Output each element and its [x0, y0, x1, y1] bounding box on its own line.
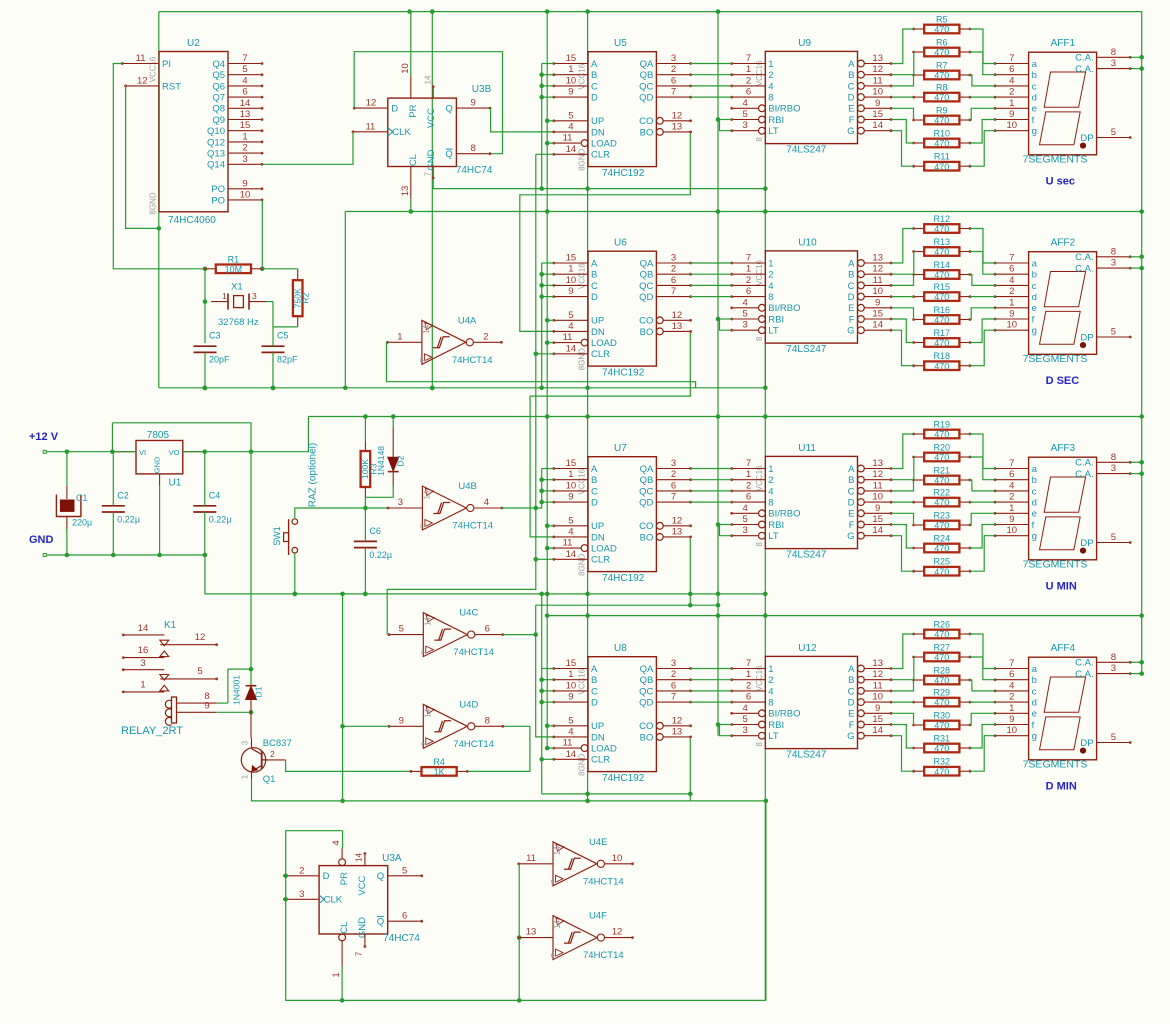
svg-text:g: g: [1032, 731, 1037, 742]
U9 pin 15 outF: [858, 116, 865, 123]
wire relay pin9: [217, 711, 251, 713]
svg-text:Q: Q: [377, 871, 384, 882]
svg-text:6: 6: [402, 911, 407, 922]
U10 pin 3 LT: [759, 327, 766, 334]
U9 pin 6 in8: [732, 96, 766, 98]
svg-text:R7: R7: [936, 61, 948, 71]
IC U8 74HC192: [578, 643, 657, 784]
svg-text:8: 8: [768, 498, 773, 509]
wires AFF1 C.A. to rail: [1130, 56, 1142, 58]
AFF3 pin 6 seg b: [995, 479, 1029, 481]
svg-text:1: 1: [568, 264, 573, 275]
AFF2 pin 1 seg e: [995, 307, 1029, 309]
svg-text:4: 4: [768, 281, 773, 292]
svg-text:2: 2: [1009, 692, 1014, 703]
resistor R3: [360, 441, 378, 498]
svg-text:C: C: [848, 281, 855, 292]
IC U2 74HC4060: [121, 38, 264, 226]
svg-text:15: 15: [240, 120, 251, 131]
svg-text:470: 470: [934, 721, 949, 731]
svg-text:AFF1: AFF1: [1051, 38, 1076, 49]
svg-text:5: 5: [568, 515, 573, 526]
svg-text:8: 8: [755, 336, 764, 341]
wires U12 outputs to resistors: [891, 634, 914, 669]
svg-text:74HC74: 74HC74: [383, 933, 420, 944]
svg-text:2: 2: [746, 75, 751, 86]
svg-text:0.22µ: 0.22µ: [209, 514, 232, 524]
AFF2 pin 4 seg c: [995, 284, 1029, 286]
wire U3B Q to U5 DN: [491, 108, 554, 132]
svg-text:5: 5: [1111, 327, 1116, 338]
U11 pin 6 in8: [732, 501, 766, 503]
svg-text:d: d: [1032, 498, 1037, 509]
svg-text:VCC: VCC: [426, 108, 437, 128]
AFF4 pin 5 DP: [1097, 742, 1131, 744]
svg-text:U sec: U sec: [1046, 176, 1075, 188]
wire SW1 top to U4B input: [295, 508, 388, 519]
svg-text:C: C: [848, 81, 855, 92]
wires U7 outputs to U11: [690, 468, 731, 470]
svg-text:470: 470: [934, 162, 949, 172]
svg-text:QC: QC: [639, 281, 653, 292]
U12 pin 9 outE: [858, 710, 865, 717]
svg-text:9: 9: [568, 692, 573, 703]
svg-text:11: 11: [136, 53, 146, 64]
svg-text:470: 470: [934, 430, 949, 440]
svg-text:g: g: [1032, 326, 1037, 337]
wire bottom rail below row4: [542, 794, 691, 801]
junction dots rails: [407, 9, 412, 14]
svg-text:13: 13: [526, 927, 537, 938]
svg-text:15: 15: [872, 309, 883, 320]
U12 pin 14 outG: [858, 732, 865, 739]
svg-text:7: 7: [671, 692, 676, 703]
svg-text:5: 5: [568, 110, 573, 121]
U9 pin 9 outE: [858, 105, 865, 112]
wire LT feed row 3: [720, 725, 732, 736]
U6 pin 7 QD: [656, 296, 690, 298]
svg-text:C: C: [591, 81, 598, 92]
svg-text:0.22µ: 0.22µ: [369, 550, 392, 560]
svg-text:UP: UP: [591, 116, 604, 127]
wire x342 column: [342, 594, 344, 801]
resistor R22: [912, 488, 971, 508]
svg-text:9: 9: [1009, 514, 1014, 525]
svg-text:15: 15: [566, 658, 577, 669]
svg-text:7: 7: [746, 458, 751, 469]
svg-text:GND: GND: [29, 534, 54, 546]
svg-text:2: 2: [768, 475, 773, 486]
svg-text:UP: UP: [591, 316, 604, 327]
svg-text:a: a: [1032, 258, 1038, 269]
svg-text:f: f: [1032, 314, 1035, 325]
wire U8 BO drop: [689, 737, 691, 794]
svg-text:16: 16: [138, 645, 149, 656]
svg-text:C.A.: C.A.: [1075, 469, 1093, 480]
svg-text:X1: X1: [231, 282, 243, 293]
resistor R14: [912, 260, 971, 280]
svg-text:BO: BO: [640, 127, 654, 138]
svg-text:U4A: U4A: [458, 315, 477, 326]
svg-text:5: 5: [568, 715, 573, 726]
wire RAZ column x=536: [387, 154, 536, 634]
svg-text:470: 470: [934, 361, 949, 371]
svg-text:470: 470: [934, 71, 949, 81]
svg-text:0.22µ: 0.22µ: [117, 514, 140, 524]
AFF3 pin 4 seg c: [995, 490, 1029, 492]
AFF2 pin 7 seg a: [995, 262, 1029, 264]
svg-text:U9: U9: [798, 38, 811, 49]
svg-text:11: 11: [563, 538, 573, 549]
svg-text:U7: U7: [614, 443, 627, 454]
wire D1 column: [250, 452, 252, 685]
svg-text:6: 6: [1009, 469, 1014, 480]
svg-text:7: 7: [671, 286, 676, 297]
svg-text:14: 14: [553, 846, 562, 855]
svg-text:10: 10: [566, 480, 577, 491]
svg-text:3: 3: [671, 53, 676, 64]
svg-text:7SEGMENTS: 7SEGMENTS: [1023, 154, 1088, 166]
svg-text:6: 6: [1009, 264, 1014, 275]
AFF4 pin 1 seg e: [995, 712, 1029, 714]
wire U3B PR up to rail: [410, 12, 411, 77]
svg-text:12: 12: [872, 669, 883, 680]
svg-text:VCC16: VCC16: [149, 56, 158, 82]
U7 pin 10 C: [554, 490, 588, 492]
svg-text:1: 1: [331, 972, 342, 977]
U5 pin 4 DN: [554, 131, 588, 133]
svg-text:LOAD: LOAD: [591, 139, 617, 150]
svg-text:5: 5: [197, 666, 202, 677]
svg-text:8: 8: [768, 698, 773, 709]
svg-text:12: 12: [872, 264, 883, 275]
svg-text:D: D: [591, 498, 598, 509]
svg-text:RAZ (optionel): RAZ (optionel): [308, 443, 319, 507]
svg-text:R4: R4: [433, 757, 445, 767]
svg-text:470: 470: [934, 116, 949, 126]
U8 pin 5 UP: [554, 725, 588, 727]
svg-text:8GND: 8GND: [149, 192, 158, 214]
U8 pin 9 D: [554, 701, 588, 703]
svg-text:Q5: Q5: [212, 70, 225, 81]
AFF3 pin 8 C.A.: [1097, 461, 1131, 463]
svg-text:6: 6: [671, 275, 676, 286]
svg-text:3: 3: [398, 497, 403, 508]
svg-text:5: 5: [742, 309, 747, 320]
svg-text:Q: Q: [445, 104, 452, 115]
wire RBI feed row 2: [718, 524, 732, 526]
U12 pin 3 LT: [759, 732, 766, 739]
svg-text:RBI: RBI: [768, 115, 784, 126]
wires left feeds U7: [542, 468, 554, 470]
svg-text:9: 9: [471, 98, 476, 109]
U10 pin 10 outD: [858, 293, 865, 300]
U3B pin 10 PR: [410, 77, 412, 99]
svg-text:D: D: [591, 292, 598, 303]
svg-text:7: 7: [424, 171, 433, 176]
diode D1 1N4001: [232, 675, 264, 738]
svg-text:b: b: [1032, 270, 1037, 281]
svg-text:1: 1: [397, 331, 402, 342]
svg-text:7: 7: [746, 658, 751, 669]
svg-text:Q8: Q8: [212, 104, 225, 115]
svg-text:c: c: [1032, 281, 1037, 292]
wire crystal pin3 to R2 bottom: [273, 302, 298, 327]
U7 pin 12 CO: [656, 522, 663, 529]
svg-text:10: 10: [1007, 120, 1018, 131]
svg-text:11: 11: [563, 332, 573, 343]
svg-text:1: 1: [568, 669, 573, 680]
IC U7 74HC192: [578, 443, 657, 584]
svg-text:7: 7: [1009, 658, 1014, 669]
svg-text:8: 8: [768, 93, 773, 104]
wire C4 connections: [204, 452, 206, 506]
U3B pin 14 VCC stub: [432, 87, 434, 99]
svg-text:PR: PR: [408, 104, 419, 117]
resistor R24: [912, 534, 971, 554]
U11 pin 2 in4: [732, 490, 766, 492]
svg-text:7: 7: [550, 879, 559, 884]
svg-text:14: 14: [424, 75, 433, 84]
wire column x=541 presets row2: [541, 263, 543, 388]
wire GND rail power: [43, 554, 46, 557]
svg-text:2: 2: [768, 270, 773, 281]
svg-text:11: 11: [873, 480, 883, 491]
AFF1 pin 8 C.A.: [1097, 56, 1131, 58]
IC U10 74LS247: [755, 238, 858, 356]
U6 pin 15 A: [554, 262, 588, 264]
resistor R26: [912, 620, 971, 640]
svg-text:A: A: [591, 664, 598, 675]
wire C5 gnd: [272, 352, 274, 388]
svg-text:BI/RBO: BI/RBO: [768, 303, 800, 314]
resistor R8: [912, 83, 971, 103]
svg-text:3: 3: [1111, 258, 1116, 269]
U6 pin 11 LOAD: [581, 339, 588, 346]
AFF4 pin 6 seg b: [995, 679, 1029, 681]
svg-text:470: 470: [934, 544, 949, 554]
svg-text:G: G: [847, 731, 854, 742]
svg-text:7: 7: [671, 492, 676, 503]
svg-text:BO: BO: [640, 327, 654, 338]
svg-text:9: 9: [1009, 109, 1014, 120]
svg-text:C6: C6: [369, 526, 381, 536]
resistor R30: [912, 711, 971, 731]
wire emitter GND rail: [251, 801, 766, 1001]
U11 pin 3 LT: [759, 532, 766, 539]
svg-text:R1: R1: [228, 254, 240, 264]
svg-text:7: 7: [242, 53, 247, 64]
svg-text:470: 470: [934, 476, 949, 486]
svg-text:QD: QD: [639, 93, 653, 104]
display AFF3 7SEGMENTS: [994, 443, 1132, 571]
svg-text:14: 14: [240, 98, 251, 109]
svg-text:f: f: [1032, 520, 1035, 531]
U5 pin 11 LOAD: [581, 140, 588, 147]
resistor R18: [912, 351, 971, 371]
svg-text:12: 12: [672, 310, 683, 321]
wire U3B gnd pin line: [433, 179, 765, 189]
wire LT feed row 2: [720, 525, 732, 536]
U6 pin 14 CLR: [554, 353, 588, 355]
svg-text:11: 11: [563, 133, 573, 144]
svg-text:C: C: [591, 281, 598, 292]
svg-text:R25: R25: [934, 557, 951, 567]
svg-text:11: 11: [365, 121, 375, 132]
U10 pin 13 outA: [858, 260, 865, 267]
svg-text:CO: CO: [639, 721, 653, 732]
U3B pin 9 Q: [456, 107, 490, 109]
svg-text:R30: R30: [934, 711, 951, 721]
U11 pin 1 in2: [732, 479, 766, 481]
svg-text:e: e: [1032, 509, 1037, 520]
wire RBI feed row 1: [718, 318, 732, 320]
wire R3 D2 join: [365, 484, 393, 497]
AFF1 pin 3 C.A.: [1097, 68, 1131, 70]
svg-text:14: 14: [566, 749, 577, 760]
svg-text:2: 2: [242, 143, 247, 154]
svg-text:R23: R23: [934, 511, 951, 521]
U7 pin 6 QC: [656, 490, 690, 492]
svg-text:R21: R21: [934, 466, 951, 476]
svg-text:BI/RBO: BI/RBO: [768, 104, 800, 115]
AFF1 pin 9 seg f: [995, 119, 1029, 121]
svg-text:AFF4: AFF4: [1051, 643, 1076, 654]
svg-text:K1: K1: [164, 620, 177, 631]
resistor R17: [912, 328, 971, 348]
wire column x=587 GND net: [587, 12, 589, 801]
svg-text:CL: CL: [408, 154, 419, 166]
svg-text:470: 470: [934, 338, 949, 348]
AFF2 pin 5 DP: [1097, 336, 1131, 338]
flip-flop U3B 74HC74: [388, 98, 457, 171]
U6 pin 13 BO: [656, 328, 663, 335]
svg-text:AFF2: AFF2: [1051, 238, 1076, 249]
svg-text:14: 14: [872, 320, 883, 331]
svg-text:7: 7: [419, 523, 428, 528]
wire cascade row2-3: [530, 331, 690, 537]
wires AFF4 C.A. to rail: [1130, 661, 1142, 663]
AFF4 pin 4 seg c: [995, 690, 1029, 692]
AFF4 pin 8 C.A.: [1097, 661, 1131, 663]
svg-text:74LS247: 74LS247: [786, 145, 826, 156]
svg-text:C.A.: C.A.: [1075, 64, 1093, 75]
AFF4 pin 2 seg d: [995, 701, 1029, 703]
resistor R15: [912, 282, 971, 302]
svg-text:4: 4: [331, 840, 342, 845]
svg-text:10: 10: [612, 853, 623, 864]
resistor R6: [912, 38, 971, 58]
svg-text:10: 10: [872, 492, 883, 503]
svg-text:PR: PR: [339, 872, 350, 885]
U7 pin 13 BO: [656, 534, 663, 541]
svg-text:QB: QB: [640, 70, 654, 81]
svg-text:11: 11: [873, 75, 883, 86]
svg-text:14: 14: [872, 525, 883, 536]
svg-text:b: b: [1032, 70, 1037, 81]
svg-text:74HC192: 74HC192: [602, 573, 645, 584]
U7 pin 7 QD: [656, 501, 690, 503]
svg-text:B: B: [591, 475, 597, 486]
svg-text:AFF3: AFF3: [1051, 443, 1076, 454]
U7 pin 11 LOAD: [581, 545, 588, 552]
svg-text:2: 2: [746, 275, 751, 286]
wires U9 outputs to resistors: [891, 29, 914, 64]
svg-text:R11: R11: [934, 152, 950, 162]
svg-text:Q9: Q9: [212, 115, 225, 126]
svg-text:4: 4: [1009, 275, 1014, 286]
U6 pin 9 D: [554, 296, 588, 298]
svg-text:a: a: [1032, 59, 1038, 70]
svg-text:7: 7: [420, 650, 429, 655]
display AFF4 7SEGMENTS: [994, 643, 1132, 771]
svg-text:VCC: VCC: [357, 875, 368, 895]
svg-text:F: F: [849, 520, 855, 531]
U11 pin 4 BI/RBO: [759, 510, 766, 517]
U9 pin 14 outG: [858, 127, 865, 134]
svg-text:E: E: [848, 509, 854, 520]
svg-text:470: 470: [934, 25, 949, 35]
wire Q14 to CLK: [262, 132, 353, 165]
crystal X1 32768Hz: [211, 282, 266, 329]
svg-text:3: 3: [241, 740, 250, 745]
resistor R7: [912, 61, 971, 81]
wire column x=541 presets row3: [536, 469, 542, 509]
svg-text:14: 14: [138, 623, 149, 634]
svg-text:9: 9: [875, 98, 880, 109]
svg-text:b: b: [1032, 475, 1037, 486]
resistor R2: [293, 270, 311, 327]
svg-text:74LS247: 74LS247: [786, 550, 826, 561]
svg-text:5: 5: [242, 64, 247, 75]
U5 pin 7 QD: [656, 96, 690, 98]
svg-text:470: 470: [934, 315, 949, 325]
U9 pin 12 outB: [858, 71, 865, 78]
inverter U4A 74HCT14: [386, 315, 503, 366]
AFF4 pin 9 seg f: [995, 724, 1029, 726]
svg-text:10: 10: [566, 275, 577, 286]
svg-text:12: 12: [872, 64, 883, 75]
svg-text:C.A.: C.A.: [1075, 669, 1093, 680]
U9 pin 10 outD: [858, 94, 865, 101]
wire column x=765 GND decoders seg3: [764, 549, 766, 657]
svg-text:6: 6: [671, 680, 676, 691]
wires resistors to AFF4 pins: [970, 634, 995, 669]
wire CLR feed row 2: [536, 558, 554, 560]
svg-text:4: 4: [768, 686, 773, 697]
inverter U4F 74HCT14: [517, 911, 634, 962]
svg-text:R15: R15: [934, 282, 951, 292]
svg-text:7: 7: [1009, 253, 1014, 264]
U5 pin 10 C: [554, 85, 588, 87]
svg-text:C.A.: C.A.: [1075, 458, 1093, 469]
wire CLR feed row 3: [542, 758, 554, 760]
svg-text:3: 3: [1111, 58, 1116, 69]
svg-text:11: 11: [873, 680, 883, 691]
svg-text:2: 2: [1009, 286, 1014, 297]
AFF2 pin 8 C.A.: [1097, 256, 1131, 258]
wire column x=541 presets row1: [541, 64, 543, 189]
svg-text:11: 11: [563, 738, 573, 749]
U8 pin 7 QD: [656, 701, 690, 703]
AFF2 pin 2 seg d: [995, 296, 1029, 298]
svg-text:12: 12: [672, 515, 683, 526]
U9 pin 5 RBI: [759, 116, 766, 123]
svg-text:A: A: [591, 59, 598, 70]
svg-text:C3: C3: [209, 331, 221, 341]
wire 7805 gnd down: [159, 486, 161, 555]
svg-text:10: 10: [1007, 725, 1018, 736]
